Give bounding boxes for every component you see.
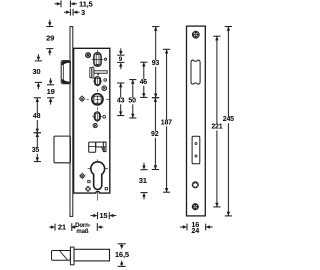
svg-text:35: 35 (32, 147, 40, 154)
svg-text:19: 19 (47, 87, 55, 96)
svg-text:31: 31 (139, 176, 148, 185)
svg-text:93: 93 (152, 60, 160, 67)
svg-text:3: 3 (81, 8, 85, 17)
svg-text:245: 245 (223, 116, 234, 123)
svg-text:15: 15 (99, 211, 108, 220)
svg-text:50: 50 (128, 97, 136, 104)
svg-text:maß: maß (76, 228, 88, 235)
svg-text:187: 187 (161, 119, 172, 126)
svg-text:30: 30 (32, 67, 40, 76)
svg-text:16,5: 16,5 (115, 250, 130, 259)
svg-text:221: 221 (211, 123, 222, 130)
svg-text:21: 21 (58, 223, 67, 232)
svg-text:46: 46 (140, 79, 148, 86)
svg-text:92: 92 (151, 131, 159, 138)
svg-text:43: 43 (117, 97, 125, 104)
svg-text:29: 29 (46, 33, 54, 42)
svg-text:24: 24 (191, 226, 199, 235)
svg-text:48: 48 (33, 113, 41, 120)
